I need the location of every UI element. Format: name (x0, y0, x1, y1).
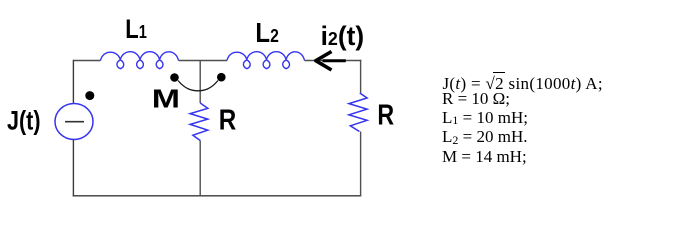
wire top-middle segment (179, 60, 228, 62)
wire middle branch lower (199, 141, 201, 196)
polarity dot L1 right terminal (170, 73, 179, 82)
current arrow i2(t) (316, 52, 346, 71)
polarity dot L2 left terminal (217, 73, 226, 82)
wire bottom (73, 195, 362, 197)
svg-text:L1: L1 (125, 14, 147, 44)
wire top-left segment (73, 60, 100, 62)
svg-text:J(t): J(t) (7, 105, 41, 135)
svg-text:i2(t): i2(t) (321, 21, 365, 51)
value label line 4: L2 = 20 mH. (442, 128, 527, 145)
svg-text:M: M (152, 85, 180, 113)
wire middle branch upper (199, 61, 201, 104)
resistor R right (349, 93, 367, 132)
inductor L2 (227, 52, 305, 69)
wire left branch lower (72, 140, 74, 197)
svg-text:R: R (377, 98, 394, 131)
svg-text:L2: L2 (255, 17, 278, 48)
value label line 3: L1 = 10 mH; (442, 109, 528, 126)
value label line 5: M = 14 mH; (442, 148, 527, 165)
value label line 2: R = 10 Ohm; (442, 90, 510, 107)
svg-text:R: R (219, 104, 237, 137)
wire left branch upper (72, 60, 74, 104)
value label line 1: J(t) = sqrt(2) sin(1000t) A; (443, 75, 603, 92)
inductor L1 (101, 52, 179, 69)
polarity dot near source (L1 left terminal) (85, 91, 94, 100)
wire right branch upper (360, 60, 362, 93)
current source J(t) (55, 104, 93, 140)
wire top-right segment (305, 60, 362, 62)
mutual coupling arc M (178, 81, 218, 91)
resistor R middle (190, 103, 208, 141)
wire right branch lower (360, 132, 362, 197)
